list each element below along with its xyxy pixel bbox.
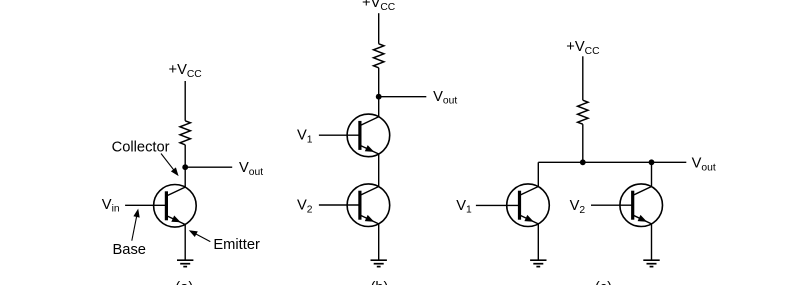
svg-text:V1: V1	[297, 128, 313, 146]
svg-text:Emitter: Emitter	[213, 237, 260, 253]
svg-text:Collector: Collector	[112, 140, 170, 156]
svg-text:Vout: Vout	[433, 89, 457, 107]
svg-text:Vin: Vin	[102, 197, 120, 215]
svg-text:V2: V2	[297, 198, 313, 216]
svg-text:+VCC: +VCC	[566, 39, 600, 57]
svg-text:V2: V2	[570, 198, 586, 216]
svg-text:+VCC: +VCC	[362, 0, 396, 13]
svg-text:Vout: Vout	[692, 156, 716, 174]
svg-text:(c): (c)	[595, 280, 612, 285]
svg-text:Vout: Vout	[239, 160, 263, 178]
svg-text:V1: V1	[456, 198, 472, 216]
svg-text:(a): (a)	[175, 280, 193, 285]
svg-text:Base: Base	[113, 242, 146, 258]
svg-text:(b): (b)	[371, 280, 389, 285]
svg-text:+VCC: +VCC	[169, 62, 203, 80]
